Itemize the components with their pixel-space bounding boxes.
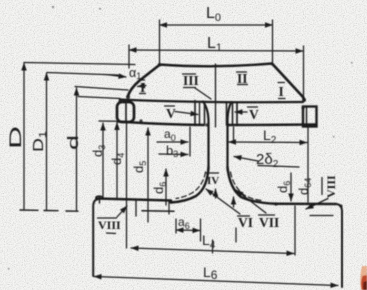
dimension d4 line <box>116 123 118 199</box>
VI leader <box>206 189 240 214</box>
stem flare vertical x=204.5 <box>204 103 206 126</box>
dashed base line segment 3 <box>66 210 78 212</box>
D extension to rim <box>24 63 135 65</box>
dimension d5 line <box>147 128 149 222</box>
dimension a0 line <box>157 141 188 143</box>
dashed base line segment 1 <box>20 209 38 211</box>
band top left thin extension <box>78 97 120 99</box>
a6 right extension <box>200 219 202 241</box>
stem flare vertical x=195 <box>194 101 196 126</box>
dashed base line segment 2 <box>44 210 58 212</box>
rim band bottom line right part <box>229 123 316 126</box>
hub left rounded corner and left edge <box>93 199 99 277</box>
hub top right line <box>276 203 336 206</box>
VIII left underline <box>106 232 116 235</box>
III underbar <box>183 87 196 89</box>
extension for a0 and b3 <box>189 127 191 156</box>
ink blob square top left <box>301 106 304 109</box>
I right overbar <box>278 82 286 84</box>
L4 right extension <box>294 206 296 255</box>
dimension L6 line <box>94 277 338 286</box>
2delta2 leader arrow <box>234 157 258 162</box>
rim band top line <box>120 100 303 103</box>
alpha1 leader arrow <box>106 75 126 78</box>
ink blob bell-hub right junction <box>274 202 278 206</box>
bell right dashed inner line <box>231 172 263 201</box>
2delta2 underline <box>258 166 299 168</box>
hub left corner double bump <box>96 196 103 199</box>
capsule inner vertical <box>125 103 127 121</box>
L0 left extension <box>159 20 161 63</box>
dimension d6 left line <box>165 169 167 205</box>
I left overbar <box>139 79 145 81</box>
rim band bottom line left part <box>118 122 204 126</box>
V left overbar <box>164 105 175 107</box>
stem flare vertical x=237 <box>236 103 238 126</box>
ink blob stem-band left junction <box>205 123 208 126</box>
hub short vertical x=169 <box>168 201 170 214</box>
stem flare vertical x=232.5 <box>232 103 234 126</box>
dimension L2 line <box>229 141 308 144</box>
VII leader <box>236 190 266 213</box>
dimension L0 line <box>160 24 273 26</box>
V right leader <box>235 111 247 113</box>
D1 extension <box>47 73 118 76</box>
ink blob band-capsule junction <box>118 99 121 102</box>
I left underbar <box>139 93 146 95</box>
hub stub vertical x=236 <box>235 228 237 242</box>
hub inner step line <box>142 210 174 212</box>
L0 right extension <box>272 20 274 62</box>
bell right curve (web to hub fillet) <box>228 167 277 204</box>
V right overbar <box>247 106 258 108</box>
III leader <box>195 88 211 99</box>
L1 left extension <box>128 45 130 68</box>
rim right slope (surface I right) <box>272 64 305 101</box>
VI overbar <box>237 215 250 217</box>
II overbar <box>236 71 247 73</box>
L2 right extension <box>307 126 309 202</box>
VIII right leader <box>306 199 328 210</box>
ink blob stem-band right junction <box>226 123 229 126</box>
ink blob rim top right corner <box>271 63 274 66</box>
bell left dashed inner line <box>176 172 206 199</box>
square boss inner vertical <box>306 107 308 126</box>
VIII left overbar <box>97 217 117 219</box>
dimension L1 line <box>129 50 303 51</box>
dimension a6 line <box>176 229 200 232</box>
ink blob hub left corner <box>95 197 98 200</box>
band bottom thin left extension <box>99 120 118 122</box>
dimension d3 line <box>102 123 104 198</box>
I left leader <box>138 86 147 87</box>
hub top left line <box>97 199 171 201</box>
IV overbar <box>206 172 219 174</box>
VII overbar <box>258 214 275 216</box>
dimension D1 line <box>46 73 48 210</box>
ink blob rim top left corner <box>159 64 162 67</box>
VIII left leader <box>117 206 127 217</box>
a6 left extension <box>175 219 177 233</box>
small arrow in right bell <box>233 197 235 207</box>
rim left slope (surface I left) <box>128 65 160 97</box>
dimension L4 line <box>131 248 294 254</box>
VIII right overbar (rotated) <box>321 177 323 195</box>
VIII right horizontal stub <box>310 215 333 217</box>
ink blob slope-square junction <box>302 98 306 102</box>
left rounded boss (capsule) <box>117 102 134 122</box>
bell left curve (web to hub fillet) <box>171 167 209 203</box>
ink blob bell-hub left junction <box>169 200 173 204</box>
V left leader <box>175 112 198 115</box>
ink blob capsule bottom right <box>139 119 142 122</box>
web stem left edge <box>203 102 209 171</box>
II underbar <box>237 84 248 86</box>
dimension d line <box>76 88 78 211</box>
hub right rounded corner and right edge <box>336 204 342 287</box>
dimension d6 right line with down arrow <box>290 173 292 201</box>
L1 right extension <box>303 46 305 98</box>
hub short vertical x=136 <box>135 199 137 216</box>
I right underbar <box>278 98 286 100</box>
stem flare vertical x=226.5 <box>226 103 228 126</box>
rim top edge <box>159 64 272 67</box>
hub left corner tick <box>99 197 101 204</box>
dimension D line <box>23 63 25 209</box>
ink blob hub right corner <box>339 204 342 207</box>
III overbar <box>182 73 196 75</box>
d extension <box>75 87 128 91</box>
orange scan mark at right edge <box>360 266 367 290</box>
wheel centre line upper <box>215 64 217 127</box>
wheel centre line tick at L4 <box>212 240 214 253</box>
right square boss <box>303 107 317 127</box>
web stem right edge <box>228 102 232 170</box>
extension line x=126.5 down to L4 <box>126 122 128 248</box>
IV small arrow <box>215 189 217 198</box>
2delta2 extension stub <box>233 127 235 141</box>
dimension b3 line <box>159 153 188 156</box>
ink blob slope-capsule junction <box>126 95 130 99</box>
stem flare vertical x=199.5 <box>199 102 201 126</box>
